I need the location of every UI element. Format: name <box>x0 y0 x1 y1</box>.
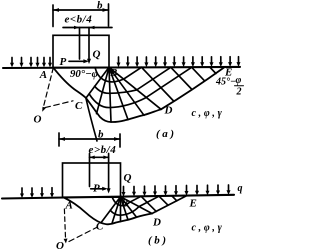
svg-text:P: P <box>93 183 100 195</box>
svg-text:90°−φ: 90°−φ <box>70 68 98 80</box>
dashed line O to C (b) <box>69 227 98 242</box>
svg-text:φ: φ <box>236 75 242 86</box>
svg-text:D: D <box>164 105 173 117</box>
svg-text:45°−: 45°− <box>215 77 236 88</box>
dimension line e (b) <box>90 156 109 158</box>
steep line below C (a) <box>86 99 97 142</box>
passive zone line 4 (a) <box>210 67 216 73</box>
slip arc A to C (a) <box>53 68 86 98</box>
dimension line b <box>53 9 109 11</box>
fan boundary line B-D (a) <box>109 67 161 109</box>
passive boundary D to E (a) <box>161 68 224 110</box>
svg-text:C: C <box>75 100 83 112</box>
dashed line A to O (b) <box>64 209 65 241</box>
passive zone line 2 (b) <box>159 196 168 205</box>
svg-text:2: 2 <box>236 87 242 98</box>
svg-text:e>b/4: e>b/4 <box>89 144 117 156</box>
svg-text:(b): (b) <box>148 235 169 247</box>
surcharge arrows right of footing (a) <box>117 57 241 68</box>
svg-text:c,φ,γ: c,φ,γ <box>192 108 225 119</box>
svg-text:(a): (a) <box>156 128 177 140</box>
fan radial 5 (a) <box>109 67 144 115</box>
fan radial 5 (b) <box>121 197 137 217</box>
footing centerline (b) <box>89 154 91 187</box>
svg-text:O: O <box>34 113 42 125</box>
fan arc 3 (a) <box>89 67 192 107</box>
fan radial 3 (a) <box>109 67 111 122</box>
wedge line B-C (a) <box>86 67 109 98</box>
fan radial 4 (a) <box>109 67 128 119</box>
fan arc 2 (b) <box>110 196 159 215</box>
svg-text:P: P <box>60 56 67 68</box>
fan arc 1 (b) <box>112 196 141 205</box>
fan radial 3 (b) <box>120 197 122 222</box>
ground surface line (a) <box>3 67 240 68</box>
svg-text:E: E <box>189 197 197 209</box>
dimension b extension line left (b) <box>58 133 60 146</box>
passive zone line 1 (a) <box>142 67 174 101</box>
dimension line b (b) <box>59 138 120 140</box>
force P arrow (a) <box>69 60 87 62</box>
fan boundary line B-D (b) <box>121 197 153 214</box>
fan radial 2 (b) <box>112 197 121 224</box>
svg-text:C: C <box>96 221 104 233</box>
dashed line A to O (a) <box>43 68 53 109</box>
svg-text:Q: Q <box>93 49 101 61</box>
passive zone line 1 (b) <box>141 196 156 211</box>
svg-text:b: b <box>98 129 104 141</box>
svg-text:A: A <box>39 69 47 81</box>
fan arc 1 with 90-phi angle arc (a) <box>95 67 142 82</box>
svg-text:O: O <box>56 240 64 252</box>
svg-text:b: b <box>97 0 103 12</box>
fan radial 2 (a) <box>97 67 110 113</box>
ground surface line (b) <box>2 195 234 199</box>
fan arc 2 (a) <box>95 67 171 93</box>
passive boundary D to E (b) <box>152 196 186 214</box>
surcharge arrows right of footing (b) <box>122 185 231 197</box>
outer slip spiral C to D (a) <box>86 98 161 122</box>
svg-text:e<b/4: e<b/4 <box>65 13 93 25</box>
outer slip spiral C to D (b) <box>101 214 152 225</box>
wedge line B-C (b) <box>101 197 121 223</box>
force Q line of action (b) <box>108 154 110 192</box>
svg-text:D: D <box>152 217 161 229</box>
passive zone line 3 (b) <box>172 196 177 201</box>
svg-text:B: B <box>120 198 128 210</box>
svg-text:c,φ,γ: c,φ,γ <box>192 223 225 234</box>
surcharge arrows left of footing (b) <box>20 188 54 198</box>
dimension b extension line right <box>108 4 110 26</box>
svg-text:Q: Q <box>124 172 132 184</box>
svg-text:B: B <box>109 67 117 79</box>
dimension b extension line left <box>52 5 54 27</box>
fan radial 4 (b) <box>121 197 129 220</box>
dimension line e <box>63 27 112 29</box>
surcharge arrows left of footing (a) <box>10 58 52 68</box>
force P arrow (b) <box>91 188 106 190</box>
passive zone line 3 (a) <box>192 67 205 80</box>
svg-text:q: q <box>238 183 243 194</box>
footing centerline (a) <box>79 28 81 60</box>
footing rectangle (a) <box>53 35 109 67</box>
dimension b extension line right (b) <box>119 134 121 147</box>
force Q line of action (a) <box>88 28 90 62</box>
dashed line O to C (a) <box>45 101 73 108</box>
passive zone line 2 (a) <box>171 67 192 89</box>
footing rectangle (b) <box>63 163 121 197</box>
slip curve A to C (b) <box>64 198 101 223</box>
